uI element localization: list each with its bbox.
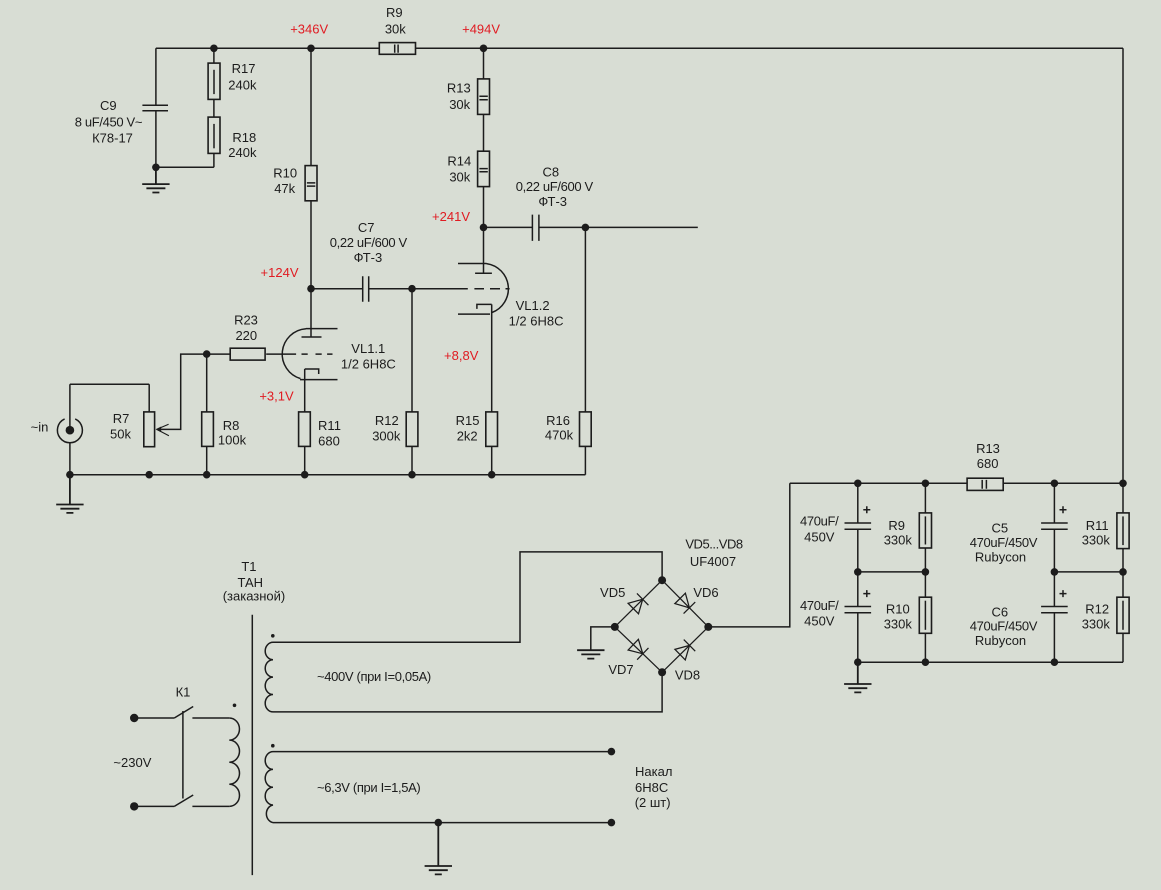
wire VL1.1 cathode to R11 — [304, 369, 306, 475]
wire +124V node to C7 and to VL1.2 grid — [311, 288, 468, 290]
svg-text:450V: 450V — [804, 613, 835, 628]
wire C5/C6 column — [1053, 483, 1055, 662]
transformer T1 heater secondary winding — [265, 752, 273, 823]
capacitor C9 leads — [155, 48, 157, 167]
svg-text:330k: 330k — [884, 533, 913, 548]
svg-text:R10: R10 — [273, 166, 297, 181]
svg-text:470k: 470k — [545, 427, 574, 442]
node filter top rail 1 — [854, 480, 862, 488]
diode bridge side VD8 — [662, 627, 708, 672]
triode VL1.1 cathode hook — [305, 369, 319, 374]
svg-text:0,22 uF/600 V: 0,22 uF/600 V — [516, 179, 594, 194]
svg-text:330k: 330k — [1082, 616, 1111, 631]
capacitor C6 plates — [1041, 607, 1068, 613]
resistor R12 330k — [1117, 597, 1129, 633]
svg-text:470uF/450V: 470uF/450V — [970, 619, 1038, 634]
svg-text:К1: К1 — [176, 684, 191, 699]
svg-text:R8: R8 — [223, 418, 240, 433]
node filter top rail 2 — [922, 480, 930, 488]
node heater ground junction — [435, 819, 443, 827]
transformer T1 heater phase dot — [271, 744, 275, 748]
wire bridge plus output to filter — [708, 483, 790, 627]
svg-text:R10: R10 — [886, 602, 910, 617]
wire grid node to R23 — [207, 353, 231, 355]
capacitor C9 plates — [142, 105, 168, 111]
polarity plus C5 — [1060, 506, 1067, 513]
node bus R15 — [488, 471, 496, 479]
wire input to R7 top — [70, 384, 149, 412]
svg-text:1/2 6Н8С: 1/2 6Н8С — [509, 313, 564, 328]
resistor R10 330k — [919, 597, 931, 633]
resistor R7 50k potentiometer body — [144, 412, 155, 447]
svg-text:(2 шт): (2 шт) — [635, 795, 671, 810]
node +241V — [480, 224, 488, 232]
svg-text:47k: 47k — [274, 181, 295, 196]
node filter mid rail 1 — [854, 568, 862, 576]
node R17 top — [210, 45, 218, 53]
svg-text:VD7: VD7 — [608, 662, 633, 677]
svg-text:~230V: ~230V — [113, 755, 151, 770]
polarity plus C6 — [1060, 590, 1067, 597]
ground on filter — [844, 662, 871, 692]
svg-text:30k: 30k — [449, 97, 470, 112]
svg-text:680: 680 — [977, 456, 999, 471]
node bridge left — [611, 623, 619, 631]
svg-text:R12: R12 — [375, 413, 399, 428]
diode VD7 — [628, 639, 649, 660]
node +494V — [480, 45, 488, 53]
node filter top rail 3 — [1051, 480, 1059, 488]
svg-text:R16: R16 — [546, 413, 570, 428]
ground on bridge — [577, 650, 604, 658]
wire R12 branch — [411, 289, 413, 475]
svg-text:240k: 240k — [228, 145, 257, 160]
node filter mid rail 3 — [1051, 568, 1059, 576]
terminal heater bottom — [608, 819, 616, 827]
svg-text:450V: 450V — [804, 529, 835, 544]
svg-text:330k: 330k — [1082, 533, 1111, 548]
wire filter mid rail left — [858, 571, 926, 573]
svg-text:R11: R11 — [1086, 518, 1109, 533]
capacitor C8 plates — [532, 215, 539, 241]
wire HV secondary bottom lead to bridge — [273, 672, 662, 712]
wire HV secondary top lead to bridge — [273, 552, 662, 642]
resistor R9 30k horizontal — [379, 43, 415, 55]
resistor R11 330k — [1117, 513, 1129, 549]
resistor R14 30k — [478, 151, 490, 186]
svg-text:0,22 uF/600 V: 0,22 uF/600 V — [330, 235, 408, 250]
svg-text:+241V: +241V — [432, 209, 470, 224]
node grid/R8/R23/wiper — [203, 350, 211, 358]
resistor R17 240k — [208, 63, 220, 99]
svg-text:C8: C8 — [542, 164, 559, 179]
node bus R11 — [301, 471, 309, 479]
svg-text:R15: R15 — [456, 413, 480, 428]
resistor R8 100k — [202, 412, 214, 447]
diode VD5 — [628, 593, 649, 614]
svg-text:VD8: VD8 — [675, 667, 700, 682]
svg-text:R7: R7 — [113, 411, 130, 426]
node +124V — [307, 285, 315, 293]
svg-text:470uF/: 470uF/ — [800, 598, 839, 613]
svg-text:Накал: Накал — [635, 764, 672, 779]
resistor R15 2k2 — [486, 412, 498, 447]
terminal mains top — [130, 714, 138, 722]
polarity plus lower left — [863, 590, 870, 597]
triode VL1.1 envelope — [282, 329, 337, 380]
svg-text:R9: R9 — [888, 518, 905, 533]
transformer T1 core — [251, 615, 253, 875]
terminal mains bottom — [130, 802, 138, 810]
switch K1 linkage — [182, 711, 184, 799]
svg-text:C9: C9 — [100, 98, 117, 113]
svg-text:~400V (при I=0,05А): ~400V (при I=0,05А) — [317, 669, 431, 684]
node +346V — [307, 45, 315, 53]
svg-text:+3,1V: +3,1V — [259, 388, 294, 403]
svg-text:8 uF/450 V~: 8 uF/450 V~ — [75, 114, 143, 129]
triode VL1.2 envelope — [458, 264, 508, 315]
switch K1 top contact — [134, 707, 229, 719]
diode bridge side VD6 — [662, 580, 708, 627]
diode VD6 — [674, 593, 695, 614]
wire R10 branch down to VL1.1 plate — [310, 48, 312, 337]
wire input jack leads — [69, 384, 71, 474]
svg-text:330k: 330k — [884, 616, 913, 631]
svg-text:C5: C5 — [991, 521, 1008, 536]
svg-text:~6,3V (при I=1,5А): ~6,3V (при I=1,5А) — [317, 780, 420, 795]
node C9/R18 junction — [152, 164, 160, 172]
resistor R23 220 horizontal — [230, 348, 265, 360]
svg-text:ФТ-3: ФТ-3 — [354, 250, 383, 265]
wire R9/R10 column — [924, 483, 926, 662]
svg-text:VL1.1: VL1.1 — [351, 341, 385, 356]
wire R17/R18 branch — [156, 48, 214, 167]
svg-text:470uF/: 470uF/ — [800, 514, 839, 529]
svg-text:Rubycon: Rubycon — [975, 549, 1026, 564]
capacitor C5 plates — [1041, 523, 1068, 529]
diode bridge side VD5 — [615, 580, 662, 627]
resistor R11 680 — [299, 412, 311, 447]
svg-text:VD5: VD5 — [600, 585, 625, 600]
capacitor 470uF/450V lower left plates — [845, 607, 872, 613]
wire bridge minus stub — [591, 627, 615, 650]
wire filter bottom rail — [858, 661, 1123, 663]
capacitor C7 plates — [363, 276, 369, 302]
resistor R12 300k — [406, 412, 418, 447]
ground on heater winding — [425, 823, 452, 875]
node filter bottom rail 2 — [922, 658, 930, 666]
triode VL1.2 anode bar — [475, 272, 492, 274]
svg-text:300k: 300k — [372, 429, 401, 444]
svg-text:VD5...VD8: VD5...VD8 — [685, 537, 743, 552]
connector input jack ring — [57, 419, 82, 443]
node filter mid rail 4 — [1119, 568, 1127, 576]
svg-text:~in: ~in — [31, 420, 49, 435]
ground below input jack — [56, 475, 83, 513]
resistor R13 30k — [478, 79, 490, 115]
node bus R12 — [408, 471, 416, 479]
polarity plus upper left — [863, 506, 870, 513]
svg-text:ФТ-3: ФТ-3 — [538, 194, 567, 209]
svg-text:R14: R14 — [447, 154, 471, 169]
wire filter mid rail right — [1054, 571, 1123, 573]
node bridge right — [704, 623, 712, 631]
svg-text:R11: R11 — [318, 418, 341, 433]
triode VL1.1 anode bar — [302, 336, 322, 338]
wire R8 branch — [206, 354, 208, 475]
svg-text:UF4007: UF4007 — [690, 554, 736, 569]
node filter top rail 4 — [1119, 480, 1127, 488]
wire +494V drop through R13 R14 — [483, 48, 485, 273]
resistor R9 330k — [919, 513, 931, 548]
svg-text:100k: 100k — [218, 433, 247, 448]
node bridge top — [658, 576, 666, 584]
svg-text:К78-17: К78-17 — [92, 131, 133, 146]
svg-text:+346V: +346V — [290, 22, 328, 37]
svg-text:220: 220 — [235, 328, 257, 343]
svg-text:680: 680 — [318, 433, 340, 448]
svg-text:+494V: +494V — [462, 22, 500, 37]
svg-text:6Н8С: 6Н8С — [635, 780, 668, 795]
wire heater bottom lead — [273, 822, 611, 824]
node C8 to R16/output — [582, 224, 590, 232]
transformer T1 HV phase dot — [271, 634, 275, 638]
wire ground bus — [70, 474, 586, 476]
resistor R18 240k — [208, 117, 220, 153]
transformer T1 primary phase dot — [233, 704, 237, 708]
switch K1 bottom contact — [134, 795, 229, 806]
node C7 to R12/grid — [408, 285, 416, 293]
node bus input — [66, 471, 74, 479]
wire filter top rail — [790, 482, 1123, 484]
svg-text:+124V: +124V — [261, 265, 299, 280]
svg-text:2k2: 2k2 — [457, 429, 478, 444]
svg-text:50k: 50k — [110, 427, 131, 442]
svg-text:R9: R9 — [386, 5, 403, 20]
wire heater top lead — [273, 751, 611, 753]
svg-text:240k: 240k — [228, 78, 257, 93]
triode VL1.2 grid dashes — [474, 288, 509, 290]
node bus R7 — [145, 471, 153, 479]
wire R16 branch — [584, 227, 586, 474]
svg-text:R23: R23 — [234, 313, 258, 328]
wire top +346V/+494V bus — [156, 47, 1123, 49]
wire VL1.2 cathode to R15 — [491, 304, 493, 474]
resistor R16 470k — [580, 412, 592, 447]
triode VL1.1 grid dashes — [266, 353, 332, 355]
resistor R13 680 horizontal — [967, 478, 1003, 490]
svg-text:R12: R12 — [1085, 602, 1109, 617]
triode VL1.2 cathode hook — [477, 304, 492, 309]
capacitor 470uF/450V upper left plates — [845, 523, 872, 529]
node filter bottom rail 3 — [1051, 658, 1059, 666]
svg-text:Т1: Т1 — [241, 559, 256, 574]
svg-text:(заказной): (заказной) — [223, 589, 286, 604]
svg-text:C6: C6 — [991, 604, 1008, 619]
svg-text:+8,8V: +8,8V — [444, 348, 479, 363]
svg-text:30k: 30k — [385, 22, 406, 37]
node filter mid rail 2 — [922, 568, 930, 576]
svg-text:Rubycon: Rubycon — [975, 633, 1026, 648]
svg-text:C7: C7 — [358, 220, 375, 235]
svg-text:R18: R18 — [232, 130, 256, 145]
transformer T1 HV secondary winding — [265, 642, 273, 712]
node input jack center pin — [66, 426, 75, 435]
transformer T1 primary winding — [229, 718, 239, 806]
diode bridge side VD7 — [615, 627, 662, 672]
svg-text:R13: R13 — [976, 441, 1000, 456]
svg-text:VD6: VD6 — [693, 585, 718, 600]
ground below C9 — [142, 167, 169, 192]
svg-text:R13: R13 — [447, 81, 471, 96]
diode VD8 — [674, 640, 695, 661]
svg-text:1/2 6Н8С: 1/2 6Н8С — [341, 356, 396, 371]
node bridge bottom — [658, 668, 666, 676]
svg-text:30k: 30k — [449, 170, 470, 185]
wire right feed from filter to top bus — [1122, 48, 1124, 662]
node bus R8 — [203, 471, 211, 479]
svg-text:R17: R17 — [232, 61, 256, 76]
node filter bottom rail 1 — [854, 658, 862, 666]
terminal heater top — [608, 748, 616, 756]
wire R7 wiper arm — [157, 354, 207, 429]
svg-text:470uF/450V: 470uF/450V — [970, 535, 1038, 550]
wire +241V node to C8 and output — [484, 226, 698, 228]
svg-text:VL1.2: VL1.2 — [516, 298, 550, 313]
wire filter left cap column — [857, 483, 859, 662]
resistor R10 47k — [305, 166, 317, 201]
